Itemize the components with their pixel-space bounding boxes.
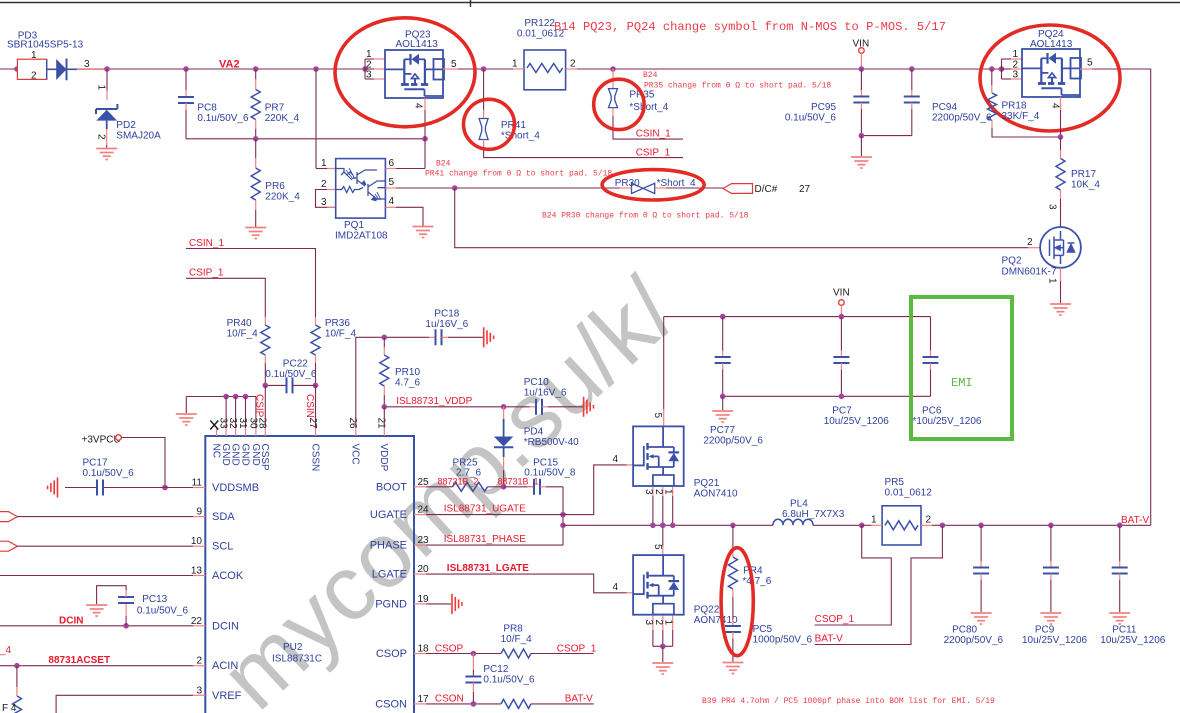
wire PQ21 pins 3-2-1 to phase rail bbox=[652, 487, 654, 496]
wire bottom of PC8/PR7 to PQ23 pin4 bbox=[186, 138, 425, 140]
wire PQ23 pins bracket bbox=[364, 59, 366, 79]
node VA2 junction x17 bbox=[14, 66, 20, 72]
svg-text:20: 20 bbox=[418, 564, 430, 575]
wire DCIN bbox=[0, 625, 193, 627]
ground for PC11 bbox=[1109, 613, 1130, 624]
wire CSIP_1 bbox=[186, 278, 265, 317]
svg-text:PR10: PR10 bbox=[395, 367, 420, 378]
svg-text:PR41 change from 0 Ω to short: PR41 change from 0 Ω to short pad. 5/18 bbox=[425, 170, 612, 179]
svg-text:VIN: VIN bbox=[853, 39, 870, 50]
svg-text:VDDSMB: VDDSMB bbox=[212, 482, 259, 494]
svg-text:5: 5 bbox=[389, 177, 395, 188]
svg-text:PR122: PR122 bbox=[524, 18, 555, 29]
svg-text:4: 4 bbox=[1050, 103, 1061, 109]
IC PU2 ISL88731C box bbox=[205, 436, 414, 713]
svg-text:21: 21 bbox=[376, 418, 387, 430]
connector SCL arrow bbox=[0, 541, 17, 551]
resistor PR25 bbox=[453, 482, 488, 491]
wire SCL bbox=[17, 545, 193, 547]
ground for PC80 bbox=[971, 613, 992, 624]
svg-text:PR17: PR17 bbox=[1071, 169, 1096, 180]
power ground for PC18 bbox=[484, 327, 494, 347]
capacitor PC17 bbox=[97, 480, 103, 496]
svg-text:3: 3 bbox=[1047, 204, 1058, 210]
svg-text:ACOK: ACOK bbox=[212, 570, 244, 582]
svg-text:5: 5 bbox=[652, 544, 663, 550]
wire PR41 branch bbox=[483, 69, 485, 110]
svg-text:4: 4 bbox=[413, 103, 424, 109]
node VA2 junction x365 bbox=[362, 66, 368, 72]
svg-text:32: 32 bbox=[227, 418, 238, 430]
svg-text:25: 25 bbox=[418, 477, 430, 488]
svg-text:1: 1 bbox=[366, 49, 372, 60]
capacitor PC11 bbox=[1112, 568, 1128, 574]
resistor PR7 bbox=[251, 90, 260, 120]
wire VIN to rail bbox=[860, 53, 862, 69]
resistor PR10 bbox=[383, 337, 385, 347]
resistor PR8 bbox=[501, 649, 531, 658]
svg-text:CSOP_1: CSOP_1 bbox=[815, 614, 855, 625]
svg-text:AOL1413: AOL1413 bbox=[1030, 39, 1073, 50]
wire PGND to ground bbox=[426, 603, 451, 605]
svg-text:1u/16V_6: 1u/16V_6 bbox=[425, 319, 468, 330]
svg-text:33: 33 bbox=[218, 418, 229, 430]
ground for IC GND bus bbox=[176, 414, 197, 425]
wire ISL88731_PHASE bbox=[426, 544, 563, 546]
wire IC GND pin x245.5 bbox=[245, 397, 247, 429]
IC pin CSON stub bbox=[414, 703, 426, 705]
wire PR18 branch bbox=[991, 69, 993, 85]
markup circle around PR41 bbox=[464, 99, 515, 149]
node junction PR17 top bbox=[1058, 134, 1064, 140]
svg-text:VDDP: VDDP bbox=[378, 444, 389, 472]
wire PD2 branch down bbox=[106, 69, 108, 91]
svg-text:SCL: SCL bbox=[212, 541, 233, 553]
IC pin BOOT stub bbox=[414, 486, 426, 488]
svg-text:1: 1 bbox=[663, 489, 674, 495]
svg-text:ISL88731_VDDP: ISL88731_VDDP bbox=[396, 396, 472, 407]
svg-text:2: 2 bbox=[96, 134, 107, 140]
node junction PQ24 bracket bbox=[999, 66, 1005, 72]
wire VIN2 bottom gnd bus bbox=[723, 395, 931, 397]
svg-text:CSOP: CSOP bbox=[376, 648, 407, 660]
wire PR35 branch bbox=[612, 69, 614, 82]
wire BOOT net bbox=[426, 486, 453, 488]
capacitor PC22 bbox=[287, 377, 293, 393]
transistor PQ1 IMD2AT108 bbox=[336, 159, 386, 219]
svg-text:PD2: PD2 bbox=[116, 120, 136, 131]
wire PR122 pin1 stub bbox=[513, 68, 524, 70]
svg-text:B39 PR4 4.7ohm / PC5 1000pf ph: B39 PR4 4.7ohm / PC5 1000pf phase into B… bbox=[702, 697, 995, 706]
svg-text:CSON: CSON bbox=[375, 698, 407, 710]
markup ellipse around PR30 bbox=[602, 170, 704, 200]
node VA2 junction x316 bbox=[313, 66, 319, 72]
svg-text:VA2: VA2 bbox=[219, 59, 240, 71]
svg-text:10u/25V_1206: 10u/25V_1206 bbox=[824, 416, 890, 427]
svg-text:*4.7_6: *4.7_6 bbox=[742, 576, 771, 587]
wire PC11 branch bbox=[1119, 525, 1121, 561]
wire PQ22 pins 3-2-1 to ground bbox=[652, 616, 654, 630]
svg-text:6.8uH_7X7X3: 6.8uH_7X7X3 bbox=[782, 509, 845, 520]
svg-text:PR6: PR6 bbox=[265, 181, 285, 192]
svg-text:PR30: PR30 bbox=[615, 178, 640, 189]
svg-text:3: 3 bbox=[366, 70, 372, 81]
svg-text:PGND: PGND bbox=[375, 598, 407, 610]
svg-text:PC10: PC10 bbox=[524, 377, 549, 388]
IC pin SDA stub bbox=[193, 516, 205, 518]
wire PC95/PC94 gnd bus bbox=[861, 135, 911, 137]
svg-text:3: 3 bbox=[321, 197, 327, 208]
svg-text:17: 17 bbox=[418, 694, 430, 705]
node VA2 junction x255.7 bbox=[253, 66, 259, 72]
top border tick bbox=[470, 0, 472, 7]
svg-text:_4: _4 bbox=[0, 645, 12, 656]
wire IC GND bus bbox=[186, 396, 256, 398]
svg-text:GND: GND bbox=[250, 444, 261, 466]
markup circle around PR35 bbox=[594, 79, 644, 129]
node junction PQ23 pin4 bbox=[422, 136, 428, 142]
svg-text:2200p/50V_6: 2200p/50V_6 bbox=[703, 436, 763, 447]
wire PQ22 pin5 from phase rail bbox=[662, 525, 664, 546]
svg-text:PC13: PC13 bbox=[142, 594, 167, 605]
svg-text:31: 31 bbox=[237, 418, 248, 430]
wire PR18 bottom to pin4 node bbox=[992, 128, 1061, 137]
svg-text:1: 1 bbox=[1047, 278, 1058, 284]
svg-text:0.1u/50V_6: 0.1u/50V_6 bbox=[483, 675, 535, 686]
svg-text:5: 5 bbox=[652, 413, 663, 419]
svg-text:ACIN: ACIN bbox=[212, 660, 238, 672]
svg-text:PC80: PC80 bbox=[952, 625, 977, 636]
wire PC15 down to phase bbox=[562, 487, 564, 545]
svg-text:GND: GND bbox=[220, 444, 231, 466]
wire ISL88731_LGATE bbox=[426, 574, 627, 593]
svg-text:PU2: PU2 bbox=[283, 642, 303, 653]
svg-text:220K_4: 220K_4 bbox=[265, 113, 300, 124]
IC pin LGATE stub bbox=[414, 573, 426, 575]
wire IC GND pin x226.1 bbox=[225, 397, 227, 429]
svg-text:B14 PQ23, PQ24 change symbol f: B14 PQ23, PQ24 change symbol from N-MOS … bbox=[554, 20, 946, 34]
svg-text:PC8: PC8 bbox=[197, 103, 217, 114]
IC pin SCL stub bbox=[193, 545, 205, 547]
svg-text:PR18: PR18 bbox=[1002, 101, 1027, 112]
IC pin VREF stub bbox=[193, 694, 205, 696]
capacitor PC18 bbox=[429, 336, 436, 338]
wire PQ2 gate long wire bbox=[455, 188, 1028, 248]
svg-text:PR36: PR36 bbox=[325, 318, 350, 329]
resistor CSON-BATV bbox=[501, 699, 531, 708]
connector D/C# bbox=[723, 184, 753, 194]
svg-text:PC6: PC6 bbox=[922, 406, 942, 417]
svg-text:11: 11 bbox=[192, 478, 203, 489]
wire CSOP net bbox=[426, 653, 501, 655]
svg-text:PC9: PC9 bbox=[1035, 625, 1055, 636]
node junction PC12 top bbox=[471, 651, 477, 657]
svg-text:ISL88731_LGATE: ISL88731_LGATE bbox=[447, 563, 529, 574]
capacitor PC9 bbox=[1043, 568, 1059, 574]
svg-text:0.1u/50V_6: 0.1u/50V_6 bbox=[83, 468, 135, 479]
svg-text:1u/16V_6: 1u/16V_6 bbox=[524, 388, 567, 399]
svg-text:24: 24 bbox=[418, 505, 430, 516]
svg-text:PQ2: PQ2 bbox=[1002, 256, 1022, 267]
ground for PQ22 bbox=[652, 663, 673, 674]
svg-text:CSSN: CSSN bbox=[309, 444, 320, 472]
wire PC77 gnd drop bbox=[722, 396, 724, 410]
svg-text:88731ACSET: 88731ACSET bbox=[48, 655, 110, 666]
svg-text:2200p/50V_6: 2200p/50V_6 bbox=[932, 113, 992, 124]
ground for PC95/PC94 bbox=[851, 157, 872, 168]
svg-text:SMAJ20A: SMAJ20A bbox=[116, 131, 161, 142]
wire PR35 to CSIN_1 bbox=[613, 116, 683, 139]
wire IC GND pin x235.6 bbox=[235, 397, 237, 429]
wire PQ24 pins bracket bbox=[1001, 59, 1003, 79]
svg-text:4.7_6: 4.7_6 bbox=[395, 378, 420, 389]
svg-text:CSIP_1: CSIP_1 bbox=[636, 148, 671, 159]
svg-text:GND: GND bbox=[239, 444, 250, 466]
svg-text:NC: NC bbox=[210, 444, 221, 458]
svg-text:EMI: EMI bbox=[951, 376, 973, 390]
wire PR41 to CSIP_1 bbox=[484, 148, 683, 158]
svg-text:IMD2AT108: IMD2AT108 bbox=[335, 231, 388, 242]
svg-text:PQ1: PQ1 bbox=[344, 220, 364, 231]
power VIN mid bbox=[839, 300, 845, 306]
svg-text:6: 6 bbox=[389, 158, 395, 169]
svg-text:9: 9 bbox=[196, 507, 202, 518]
capacitor PC22 wire bbox=[265, 384, 286, 386]
capacitor PC15 bbox=[504, 486, 528, 488]
svg-text:PR5: PR5 bbox=[885, 477, 905, 488]
svg-text:2: 2 bbox=[321, 179, 327, 190]
node junction DC gate wire bbox=[452, 185, 458, 191]
power ground for PC10 bbox=[584, 397, 594, 417]
wire PD2 pin1 stub bbox=[106, 91, 108, 101]
svg-text:UGATE: UGATE bbox=[370, 509, 407, 521]
svg-text:PC94: PC94 bbox=[932, 102, 957, 113]
wire VIN2 rail bbox=[664, 316, 931, 318]
wire PQ1 pin1 from VA2 bbox=[315, 69, 317, 169]
resistor PR40 bbox=[261, 325, 270, 355]
wire PR6 branch bbox=[255, 139, 257, 158]
svg-text:4: 4 bbox=[389, 196, 395, 207]
svg-text:ISL88731_PHASE: ISL88731_PHASE bbox=[444, 534, 527, 545]
transistor PQ2 DMN601K-7 bbox=[1040, 227, 1081, 268]
svg-text:BAT-V: BAT-V bbox=[565, 694, 593, 705]
wire PC8 branch bbox=[185, 69, 187, 90]
svg-text:AON7410: AON7410 bbox=[694, 615, 738, 626]
capacitor PC12 bbox=[472, 654, 474, 671]
IC pin VDDSMB stub bbox=[193, 487, 205, 489]
svg-text:2: 2 bbox=[196, 656, 202, 667]
svg-text:10/F_4: 10/F_4 bbox=[325, 329, 357, 340]
wire PQ1 pin4 to ground bbox=[385, 206, 396, 208]
wire VDDP pin drop bbox=[383, 407, 385, 428]
capacitor PC6 bbox=[930, 317, 932, 351]
transistor PQ24 AOL1413 bbox=[1022, 49, 1080, 97]
svg-text:DCIN: DCIN bbox=[212, 620, 239, 632]
svg-text:23: 23 bbox=[418, 535, 430, 546]
wire ISL88731_VDDP bbox=[384, 406, 529, 408]
resistor PR17 bbox=[1056, 159, 1065, 191]
IC pin PHASE stub bbox=[414, 544, 426, 546]
wire CSIN_1 bbox=[186, 249, 316, 318]
svg-text:VREF: VREF bbox=[212, 690, 242, 702]
svg-text:DCIN: DCIN bbox=[59, 615, 83, 626]
svg-text:27: 27 bbox=[307, 418, 318, 430]
diode PD3 symbol bbox=[48, 68, 57, 70]
diode PD2 zener symbol bbox=[96, 104, 117, 114]
svg-text:PR35 change from 0 Ω to short: PR35 change from 0 Ω to short pad. 5/18 bbox=[644, 82, 831, 91]
svg-text:LGATE: LGATE bbox=[372, 569, 407, 581]
power VIN top bbox=[859, 48, 865, 54]
wire ACIN 88731ACSET bbox=[0, 665, 193, 667]
diode PD4 bbox=[503, 407, 505, 419]
markup green EMI box bbox=[911, 297, 1012, 439]
svg-text:10/F_4: 10/F_4 bbox=[227, 329, 259, 340]
svg-text:PR4: PR4 bbox=[743, 566, 763, 577]
transistor PQ22 AON7410 bbox=[633, 555, 684, 615]
svg-text:PHASE: PHASE bbox=[370, 540, 407, 552]
node junction PR6 top bbox=[253, 136, 259, 142]
svg-text:5: 5 bbox=[451, 59, 457, 70]
node VA2 junction x186 bbox=[183, 66, 189, 72]
svg-text:2: 2 bbox=[653, 620, 664, 626]
svg-text:+3VPCU: +3VPCU bbox=[82, 435, 121, 446]
ground for PR6 bbox=[245, 228, 266, 239]
svg-text:CSIP_1: CSIP_1 bbox=[189, 268, 224, 279]
svg-text:0.1u/50V_8: 0.1u/50V_8 bbox=[524, 468, 576, 479]
svg-text:PC95: PC95 bbox=[811, 102, 836, 113]
svg-text:PC77: PC77 bbox=[710, 425, 735, 436]
wire PQ24 pin5 to right edge bbox=[1080, 68, 1092, 70]
svg-text:28: 28 bbox=[257, 418, 268, 430]
top border line bbox=[0, 2, 1180, 4]
svg-text:88731B_2: 88731B_2 bbox=[438, 477, 479, 487]
capacitor PC94 bbox=[904, 97, 920, 103]
inductor PL4 bbox=[773, 519, 813, 525]
svg-text:*10u/25V_1206: *10u/25V_1206 bbox=[913, 416, 982, 427]
wire PC94 branch bbox=[911, 69, 913, 90]
svg-text:B24: B24 bbox=[643, 71, 658, 80]
wire PQ1 pin5 to D/C# bbox=[385, 187, 396, 189]
svg-text:2: 2 bbox=[1027, 237, 1033, 248]
svg-text:1: 1 bbox=[31, 50, 37, 61]
wire VIN2 rail left down to PQ21 pin5 bbox=[663, 317, 665, 409]
wire PC9 branch bbox=[1050, 525, 1052, 561]
svg-text:0.1u/50V_6: 0.1u/50V_6 bbox=[137, 606, 189, 617]
capacitor PC5 bbox=[732, 620, 734, 627]
resistor PR35 short pad bbox=[609, 89, 618, 108]
resistor PR41 short pad bbox=[479, 119, 488, 140]
ground for PD2 bbox=[96, 149, 117, 160]
svg-text:ISL88731_UGATE: ISL88731_UGATE bbox=[444, 504, 526, 515]
wire CSSN pin drop bbox=[315, 385, 317, 428]
wire PQ24 pin4 down bbox=[1060, 97, 1062, 110]
svg-text:*RB500V-40: *RB500V-40 bbox=[524, 437, 579, 448]
svg-text:30: 30 bbox=[247, 418, 258, 430]
svg-text:CSSP: CSSP bbox=[259, 444, 270, 472]
svg-text:220K_4: 220K_4 bbox=[265, 192, 300, 203]
ground for PC13 bbox=[86, 605, 107, 616]
svg-text:27: 27 bbox=[799, 184, 811, 195]
svg-text:5: 5 bbox=[1087, 58, 1093, 69]
ground for PC77 bbox=[712, 411, 733, 422]
node VA2 junction x107 bbox=[104, 66, 110, 72]
wire PQ2 source to gnd bbox=[1060, 268, 1062, 281]
svg-text:PC7: PC7 bbox=[832, 406, 852, 417]
svg-text:1: 1 bbox=[871, 515, 877, 526]
wire BAT-V branch bbox=[815, 525, 943, 644]
svg-text:CSIP: CSIP bbox=[254, 394, 265, 418]
resistor bottom-left partial bbox=[13, 696, 22, 713]
svg-text:1: 1 bbox=[96, 85, 107, 91]
svg-text:3: 3 bbox=[1013, 70, 1019, 81]
wire VA2 rail from left edge to PQ23 bbox=[0, 68, 365, 70]
svg-text:BAT-V: BAT-V bbox=[1121, 515, 1149, 526]
svg-text:B24 PR30 change from 0 Ω to sh: B24 PR30 change from 0 Ω to short pad. 5… bbox=[542, 212, 749, 221]
svg-text:1: 1 bbox=[1013, 49, 1019, 60]
capacitor PC13 bbox=[125, 616, 127, 626]
svg-text:D/C#: D/C# bbox=[755, 184, 778, 195]
svg-text:0.1u/50V_6: 0.1u/50V_6 bbox=[265, 369, 317, 380]
IC pin NC no-connect X bbox=[216, 428, 218, 436]
ground for PQ1 pin4 bbox=[413, 227, 434, 238]
IC pin DCIN stub bbox=[193, 625, 205, 627]
capacitor PC95 bbox=[853, 97, 869, 103]
svg-text:PQ22: PQ22 bbox=[694, 605, 720, 616]
svg-text:ISL88731C: ISL88731C bbox=[272, 654, 322, 665]
markup ellipse around PR4 PC5 bbox=[721, 548, 753, 656]
svg-text:F 4: F 4 bbox=[2, 703, 17, 713]
svg-text:1: 1 bbox=[321, 158, 327, 169]
node junction PC80 bbox=[978, 523, 984, 529]
node junction PC77 top bbox=[720, 314, 726, 320]
node junction PR35 bbox=[610, 66, 616, 72]
svg-text:CSON: CSON bbox=[435, 694, 464, 705]
svg-text:2: 2 bbox=[31, 71, 37, 82]
svg-text:22: 22 bbox=[191, 616, 203, 627]
wire SDA bbox=[17, 516, 193, 518]
ground for PQ2 bbox=[1050, 304, 1071, 315]
node junction PC95 bbox=[859, 66, 865, 72]
svg-text:SBR1045SP5-13: SBR1045SP5-13 bbox=[7, 40, 84, 51]
svg-text:2200p/50V_6: 2200p/50V_6 bbox=[944, 635, 1004, 646]
svg-text:2: 2 bbox=[926, 515, 932, 526]
wire PR17 branch bbox=[1060, 137, 1062, 150]
node junction PR10 top bbox=[382, 335, 388, 341]
svg-text:AON7410: AON7410 bbox=[694, 489, 738, 500]
svg-text:3: 3 bbox=[643, 620, 654, 626]
IC pin CSOP stub bbox=[414, 653, 426, 655]
wire PQ23 pin5 stub bbox=[443, 68, 458, 70]
ground for PC5 bbox=[722, 663, 743, 674]
wire PQ1 pins2-3 bracket bbox=[316, 190, 336, 208]
resistor PR30 short pad bowtie bbox=[632, 183, 655, 193]
svg-text:0.1u/50V_6: 0.1u/50V_6 bbox=[785, 113, 837, 124]
svg-text:CSIN: CSIN bbox=[304, 394, 315, 418]
svg-text:0.1u/50V_6: 0.1u/50V_6 bbox=[197, 113, 249, 124]
transistor PQ23 AOL1413 bbox=[385, 50, 443, 98]
svg-text:1: 1 bbox=[512, 59, 518, 70]
svg-text:3: 3 bbox=[84, 59, 90, 70]
capacitor PC10 bbox=[530, 406, 537, 408]
IC pin ACIN stub bbox=[193, 665, 205, 667]
svg-text:0.01_0612: 0.01_0612 bbox=[885, 488, 933, 499]
wire CSON net bbox=[426, 703, 501, 705]
svg-text:GND: GND bbox=[230, 444, 241, 466]
diode PD3 package box bbox=[17, 59, 46, 79]
resistor PR4 bbox=[728, 557, 737, 589]
svg-text:2: 2 bbox=[653, 489, 664, 495]
svg-text:33K/F_4: 33K/F_4 bbox=[1002, 111, 1040, 122]
